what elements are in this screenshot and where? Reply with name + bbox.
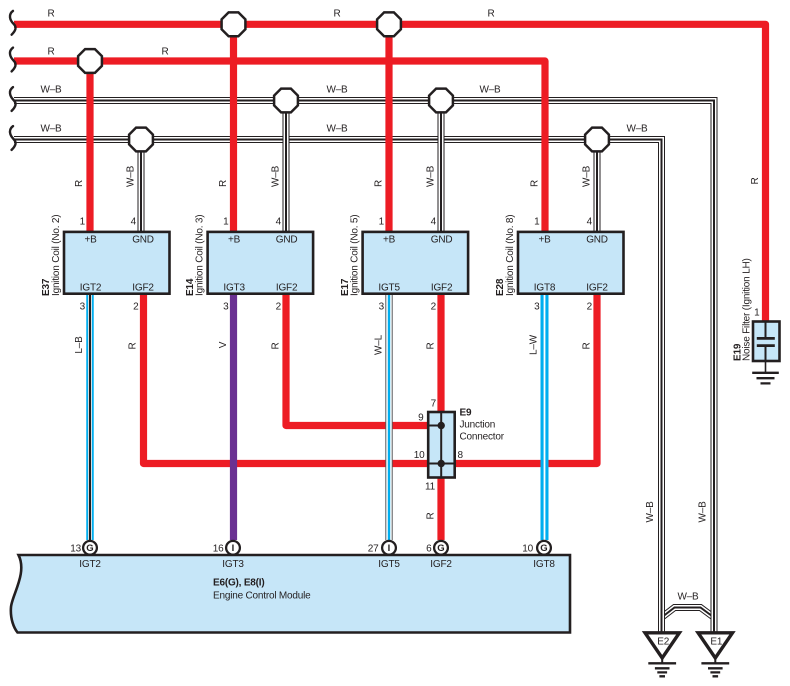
svg-text:IGT5: IGT5 — [378, 559, 400, 570]
svg-text:R: R — [426, 342, 437, 349]
svg-text:Ignition Coil (No. 3): Ignition Coil (No. 3) — [194, 215, 205, 296]
svg-text:8: 8 — [458, 450, 464, 461]
svg-text:+B: +B — [84, 235, 97, 246]
svg-text:R: R — [426, 512, 437, 519]
svg-text:W–L: W–L — [374, 334, 385, 355]
svg-text:Connector: Connector — [460, 432, 505, 443]
svg-text:W–B: W–B — [426, 165, 437, 187]
svg-text:2: 2 — [276, 301, 282, 312]
svg-text:I: I — [232, 543, 235, 554]
svg-text:1: 1 — [754, 307, 760, 318]
svg-text:W–B: W–B — [271, 165, 282, 187]
svg-text:9: 9 — [418, 413, 424, 424]
svg-text:2: 2 — [431, 301, 437, 312]
svg-text:16: 16 — [213, 544, 224, 555]
svg-text:2: 2 — [133, 301, 139, 312]
svg-text:R: R — [47, 47, 54, 58]
svg-text:3: 3 — [534, 301, 540, 312]
svg-text:IGT8: IGT8 — [534, 282, 556, 293]
svg-text:IGF2: IGF2 — [431, 282, 453, 293]
svg-text:L–B: L–B — [74, 336, 85, 354]
svg-text:4: 4 — [276, 217, 282, 228]
svg-text:E6(G), E8(I): E6(G), E8(I) — [213, 578, 265, 589]
svg-text:GND: GND — [431, 235, 453, 246]
svg-text:R: R — [333, 8, 340, 19]
svg-text:W–B: W–B — [698, 501, 709, 523]
svg-text:R: R — [161, 47, 168, 58]
svg-text:V: V — [218, 341, 229, 348]
svg-text:R: R — [487, 8, 494, 19]
svg-text:7: 7 — [431, 399, 437, 410]
svg-text:W–B: W–B — [326, 123, 348, 134]
svg-text:W–B: W–B — [40, 123, 62, 134]
svg-text:R: R — [750, 177, 761, 184]
svg-text:IGT2: IGT2 — [79, 559, 101, 570]
svg-text:E1: E1 — [710, 637, 722, 648]
svg-text:IGT3: IGT3 — [222, 559, 244, 570]
svg-text:1: 1 — [534, 217, 540, 228]
svg-text:E9: E9 — [460, 408, 472, 419]
svg-text:1: 1 — [379, 217, 385, 228]
svg-text:R: R — [218, 180, 229, 187]
svg-text:G: G — [540, 543, 547, 554]
svg-text:W–B: W–B — [645, 501, 656, 523]
svg-text:IGT8: IGT8 — [533, 559, 555, 570]
svg-text:GND: GND — [586, 235, 608, 246]
svg-text:3: 3 — [223, 301, 229, 312]
svg-text:R: R — [74, 180, 85, 187]
svg-text:4: 4 — [431, 217, 437, 228]
svg-text:+B: +B — [538, 235, 551, 246]
svg-text:10: 10 — [414, 450, 425, 461]
svg-text:W–B: W–B — [626, 123, 648, 134]
svg-text:I: I — [388, 543, 391, 554]
svg-text:IGF2: IGF2 — [586, 282, 608, 293]
svg-text:13: 13 — [70, 544, 81, 555]
svg-text:IGF2: IGF2 — [132, 282, 154, 293]
svg-text:W–B: W–B — [126, 165, 137, 187]
svg-text:R: R — [47, 8, 54, 19]
svg-text:Ignition Coil (No. 2): Ignition Coil (No. 2) — [51, 215, 62, 296]
svg-text:2: 2 — [587, 301, 593, 312]
svg-text:Noise Filter (Ignition LH): Noise Filter (Ignition LH) — [742, 258, 753, 361]
svg-text:3: 3 — [80, 301, 86, 312]
svg-text:GND: GND — [132, 235, 154, 246]
svg-text:W–B: W–B — [582, 165, 593, 187]
svg-text:G: G — [437, 543, 444, 554]
svg-text:6: 6 — [426, 544, 432, 555]
svg-text:R: R — [530, 180, 541, 187]
svg-text:R: R — [128, 342, 139, 349]
svg-text:GND: GND — [276, 235, 298, 246]
svg-text:IGT2: IGT2 — [80, 282, 102, 293]
svg-text:4: 4 — [131, 217, 137, 228]
svg-text:E2: E2 — [657, 637, 669, 648]
svg-text:+B: +B — [228, 235, 241, 246]
svg-text:IGT5: IGT5 — [378, 282, 400, 293]
svg-text:+B: +B — [383, 235, 396, 246]
svg-text:3: 3 — [379, 301, 385, 312]
svg-text:Ignition Coil (No. 5): Ignition Coil (No. 5) — [349, 215, 360, 296]
svg-text:10: 10 — [522, 544, 533, 555]
svg-text:IGF2: IGF2 — [276, 282, 298, 293]
svg-text:R: R — [374, 180, 385, 187]
svg-text:W–B: W–B — [40, 84, 62, 95]
svg-text:L–W: L–W — [529, 334, 540, 355]
svg-text:IGF2: IGF2 — [430, 559, 452, 570]
svg-text:Engine Control Module: Engine Control Module — [213, 591, 311, 602]
svg-text:R: R — [582, 342, 593, 349]
svg-text:W–B: W–B — [677, 592, 699, 603]
svg-text:G: G — [86, 543, 93, 554]
svg-text:R: R — [271, 342, 282, 349]
svg-text:Ignition Coil (No. 8): Ignition Coil (No. 8) — [505, 215, 516, 296]
svg-text:1: 1 — [223, 217, 229, 228]
svg-text:11: 11 — [425, 482, 436, 493]
svg-text:W–B: W–B — [479, 84, 501, 95]
svg-text:Junction: Junction — [460, 420, 496, 431]
svg-text:IGT3: IGT3 — [223, 282, 245, 293]
svg-text:1: 1 — [80, 217, 86, 228]
svg-text:27: 27 — [368, 544, 379, 555]
svg-text:4: 4 — [587, 217, 593, 228]
svg-text:W–B: W–B — [326, 84, 348, 95]
